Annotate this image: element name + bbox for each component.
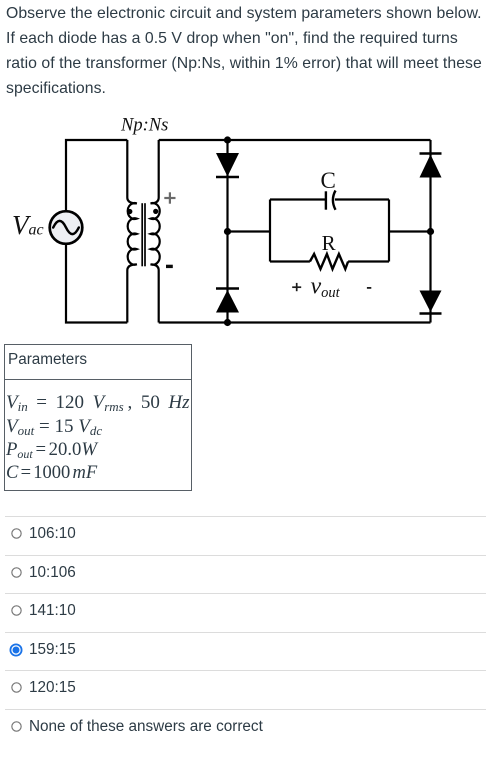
node: positive output junction bbox=[224, 228, 231, 235]
diode D1 (left top, pointing down) bbox=[216, 153, 239, 177]
wire: RC load box right edge bbox=[388, 200, 390, 262]
node: bottom junction bbox=[224, 319, 231, 326]
svg-text:Np:Ns: Np:Ns bbox=[120, 116, 168, 136]
ac source Vac (circle with sine) bbox=[50, 211, 83, 244]
secondary plus label bbox=[164, 192, 175, 203]
transformer T1: core bbox=[142, 203, 145, 266]
svg-text:R: R bbox=[322, 231, 336, 255]
polarity dot: primary bbox=[127, 209, 132, 214]
wire: secondary top rail bbox=[159, 139, 431, 141]
svg-text:vout: vout bbox=[311, 274, 341, 302]
polarity dot: secondary bbox=[153, 209, 158, 214]
wire: primary loop (left vertical, top, bottom segments) bbox=[66, 140, 127, 323]
wire: RC box bottom edge segments bbox=[270, 260, 389, 262]
diode D2 (left bottom, pointing up) bbox=[216, 289, 239, 313]
wire: bridge left leg bbox=[226, 140, 228, 323]
transformer T1: secondary winding bbox=[151, 140, 160, 323]
secondary minus label bbox=[166, 265, 173, 268]
diode D4 (right bottom, pointing down) bbox=[420, 291, 442, 314]
diode D3 (right top, pointing up) bbox=[420, 154, 442, 178]
wire: RC load box left edge bbox=[269, 200, 271, 262]
capacitor C (curved plate type) bbox=[326, 191, 336, 210]
wire: secondary bottom rail bbox=[159, 321, 431, 323]
transformer T1: primary winding bbox=[127, 140, 137, 323]
resistor R (zigzag) bbox=[310, 254, 348, 269]
wire: RC box top edge segments bbox=[270, 198, 389, 200]
svg-text:Vac: Vac bbox=[12, 210, 44, 240]
wire: negative output stub (right mid) bbox=[389, 230, 431, 232]
svg-text:C: C bbox=[321, 168, 336, 193]
label + vout - bbox=[292, 274, 371, 302]
wire: bridge right leg bbox=[429, 140, 431, 323]
node: top junction (secondary top to D1) bbox=[224, 136, 231, 143]
node: negative output junction bbox=[427, 228, 434, 235]
wire: positive output stub (left mid) bbox=[228, 230, 271, 232]
